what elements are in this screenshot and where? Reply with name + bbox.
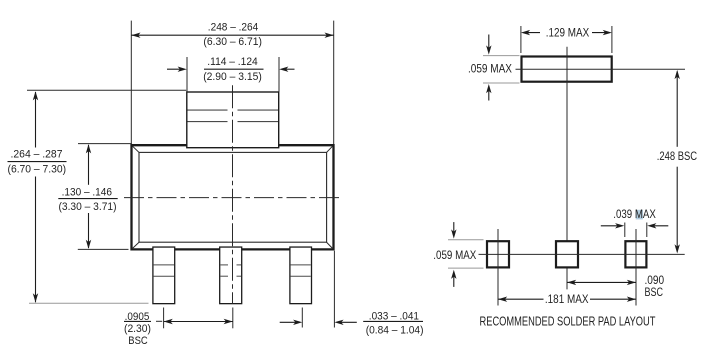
dim .039 MAX highlight on M [636,210,643,220]
dim .114-.124 left extension line [186,57,188,92]
svg-text:.039 MAX: .039 MAX [613,207,656,221]
svg-text:.130 – .146: .130 – .146 [62,186,112,198]
dim .033-.041 right extension line [333,251,335,328]
package body inner outline [139,152,327,242]
dim .130-.146 dimension line lower segment [88,213,90,248]
dim .059 bottom upper stub [448,239,484,241]
svg-text:.181 MAX: .181 MAX [545,292,589,306]
dim .248-.264 dimension line [131,34,333,36]
lead 2 (center) [220,247,242,304]
dim .248-.264 left arrowhead [131,33,140,38]
dim .248-.264 right arrowhead [325,33,334,38]
svg-text:.264 – .287: .264 – .287 [11,149,63,161]
dim .0905 right arrowhead [224,319,233,324]
dim .059 top up arrow [488,88,490,101]
dim .039 right arrow [650,225,668,227]
lead 3 (right) [290,247,312,304]
lead 3 bend lines [291,265,311,276]
solder pad A (bottom left) [487,241,509,267]
dim .059 bottom up arrow [453,273,455,287]
package body outer outline [132,145,334,249]
dim .181 left arrowhead [498,297,507,302]
body corner bevels [132,146,333,249]
dim .130-.146 top extension line [78,143,132,145]
dim .129 right extension line [611,26,613,53]
tab bend line lower [188,121,279,123]
tab bend line upper [188,109,279,111]
dim .033-.041 left arrow [280,321,300,323]
svg-text:.248 BSC: .248 BSC [657,149,697,163]
solder pad layout: top pad [522,57,612,82]
dim .181 MAX dimension line left segment [498,298,544,300]
lead 1 (left) [153,247,175,304]
dim .130-.146 bottom extension line [78,248,129,250]
dim .059 top lower stub [483,82,520,84]
svg-text:RECOMMENDED SOLDER PAD LAYOUT: RECOMMENDED SOLDER PAD LAYOUT [480,313,656,328]
dim .0905 left arrowhead [164,319,173,324]
bottom pads horizontal mid line [479,253,685,255]
pad A vertical centerline [497,229,499,306]
dim .264-.287 dimension line lower segment [35,177,37,303]
dim .090 left arrowhead [567,280,576,285]
dim .033-.041 right arrow [337,321,357,323]
dim .129 left extension line [520,26,522,53]
main vertical centerline of pad layout [566,47,568,290]
dim .264-.287 down arrowhead [33,293,38,302]
dim .039 left extension line [624,223,626,238]
dim .248 BSC up arrowhead [675,70,680,79]
dim .114-.124 right arrow [282,68,295,70]
svg-text:.248 – .264: .248 – .264 [208,22,258,34]
dim .059 bottom lower stub [448,267,484,269]
svg-text:BSC: BSC [128,335,147,347]
dim .130-.146 dimension line upper segment [88,145,90,185]
dim .0905 leader tick [156,320,162,322]
tab (heat sink tab at top of body) [187,92,279,148]
dim .264-.287 dimension line upper segment [35,92,37,148]
dim .090 right arrowhead [627,280,636,285]
dim .114-.124 left arrow [167,68,184,70]
dim .248-.264 right extension line [333,21,335,144]
svg-text:BSC: BSC [645,285,664,299]
dim .129 right arrow [592,32,609,34]
svg-text:(2.30): (2.30) [124,323,151,335]
dim .130-.146 up arrowhead [86,144,91,153]
svg-text:.129 MAX: .129 MAX [546,26,589,40]
svg-text:(6.30 – 6.71): (6.30 – 6.71) [203,36,262,48]
dim .248 BSC down arrowhead [675,244,680,253]
pad C vertical centerline [635,229,637,306]
dim .0905 left extension line [163,308,165,329]
svg-text:.114 – .124: .114 – .124 [207,56,257,68]
dim .264-.287 top extension line [27,89,186,91]
dim .264-.287 up arrowhead [33,91,38,100]
top pad horizontal mid line [516,68,686,70]
solder pad C (bottom right) [625,241,646,267]
dim .248 BSC dimension line [676,72,678,147]
dim .090 BSC dimension line [567,281,636,283]
solder pad B (bottom middle) [556,241,578,267]
dim .114-.124 right extension line [278,57,280,92]
svg-text:(0.84 – 1.04): (0.84 – 1.04) [366,325,424,337]
dim .033-.041 left extension line [301,308,303,328]
dim .033-.041 fraction bar [363,320,423,322]
dim .130-.146 down arrowhead [86,240,91,249]
dim .059 top upper stub [483,55,520,57]
lead 1 bend lines [154,265,174,276]
svg-text:(3.30 – 3.71): (3.30 – 3.71) [59,201,117,213]
dim .0905 fraction bar [124,320,151,322]
dim .181 right arrowhead [627,297,636,302]
vertical centerline of package [232,85,234,303]
lead 2 bend lines [220,265,241,276]
svg-text:.059 MAX: .059 MAX [468,62,512,76]
dim .129 left arrow [524,32,540,34]
dim .039 right extension line [646,223,648,238]
dim .0905 dimension line [164,321,233,323]
dim .059 top down arrow [488,35,490,52]
svg-text:(2.90 – 3.15): (2.90 – 3.15) [203,71,262,83]
dim .114-.124 fraction bar [204,68,264,70]
dim .0905 right extension line [232,308,234,329]
dim .039 left arrow [601,225,622,227]
dim .264-.287 bottom extension line [29,302,149,304]
dim .059 bottom down arrow [453,222,455,235]
svg-text:.059 MAX: .059 MAX [433,248,476,262]
dim .264-.287 fraction bar [8,161,67,163]
dim .130-.146 fraction bar [58,198,117,200]
dim .248-.264 left extension line [130,21,132,144]
svg-text:(6.70 – 7.30): (6.70 – 7.30) [8,164,67,176]
dim .181 MAX dimension line right segment [590,298,636,300]
horizontal centerline of package [124,197,343,199]
